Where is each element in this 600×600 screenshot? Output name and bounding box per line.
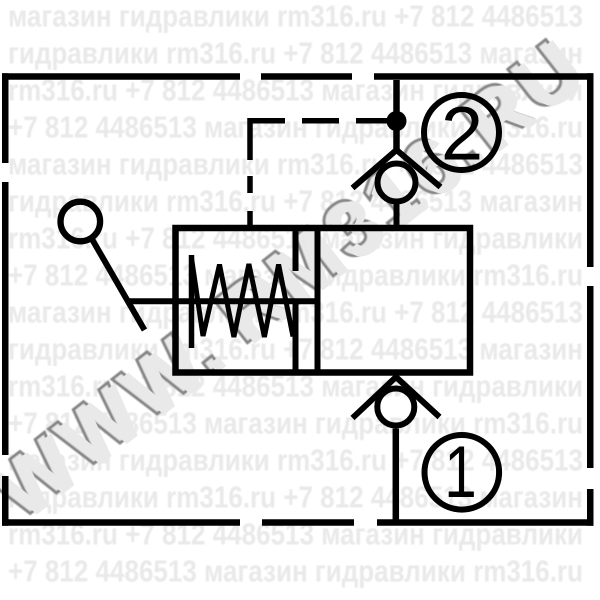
spring <box>192 258 294 337</box>
valve body <box>176 228 471 373</box>
svg-text:магазин гидравлики rm316.ru +7: магазин гидравлики rm316.ru +7 812 44865… <box>8 0 583 33</box>
svg-text:2: 2 <box>441 92 483 177</box>
check valve 1 seat <box>353 377 440 418</box>
enclosure border top <box>2 73 594 80</box>
svg-text:+7 812 4486513 магазин гидравл: +7 812 4486513 магазин гидравлики rm316.… <box>8 553 583 588</box>
svg-text:1: 1 <box>444 432 476 514</box>
lever arm <box>93 240 145 330</box>
port 2 to body <box>394 204 400 231</box>
spring plate <box>189 255 195 348</box>
inlet line <box>128 298 318 304</box>
enclosure border bottom <box>2 519 594 526</box>
lever circle <box>61 202 101 242</box>
enclosure border right <box>587 73 594 526</box>
enclosure border left <box>2 73 9 526</box>
node junction <box>387 111 407 131</box>
check valve 1 ball <box>377 389 414 426</box>
port 1 label circle <box>425 435 500 510</box>
port 2 label circle <box>424 95 499 170</box>
port 1 drop line <box>393 429 400 523</box>
check valve 2 ball <box>378 164 416 202</box>
check valve 2 seat <box>353 150 441 188</box>
pilot dashed line horizontal <box>250 118 388 124</box>
divider B <box>315 228 321 373</box>
divider A <box>293 228 299 373</box>
pilot dashed line vertical <box>247 118 253 231</box>
port 2 riser <box>393 80 400 150</box>
